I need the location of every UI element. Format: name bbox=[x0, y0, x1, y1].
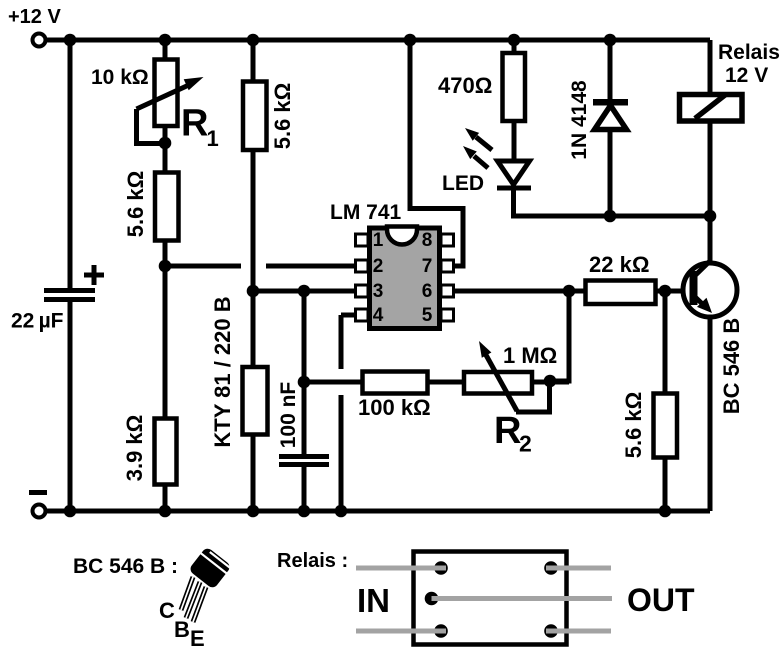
svg-text:5.6 kΩ: 5.6 kΩ bbox=[621, 392, 646, 459]
svg-text:5: 5 bbox=[422, 305, 433, 326]
svg-text:IN: IN bbox=[357, 582, 390, 619]
svg-text:R: R bbox=[181, 103, 208, 145]
svg-text:7: 7 bbox=[422, 256, 433, 277]
svg-text:1: 1 bbox=[207, 126, 219, 151]
svg-text:LED: LED bbox=[442, 172, 484, 195]
svg-text:10 kΩ: 10 kΩ bbox=[91, 66, 149, 89]
svg-text:BC 546 B: BC 546 B bbox=[719, 318, 744, 415]
svg-text:22 µF: 22 µF bbox=[11, 310, 64, 333]
svg-text:1 MΩ: 1 MΩ bbox=[503, 343, 557, 368]
svg-text:6: 6 bbox=[422, 281, 433, 302]
svg-text:Relais :: Relais : bbox=[277, 550, 348, 572]
svg-text:3: 3 bbox=[373, 281, 384, 302]
svg-text:BC 546 B :: BC 546 B : bbox=[73, 555, 178, 578]
svg-text:3.9 kΩ: 3.9 kΩ bbox=[122, 415, 147, 482]
svg-text:5.6 kΩ: 5.6 kΩ bbox=[123, 171, 148, 238]
svg-text:22 kΩ: 22 kΩ bbox=[589, 252, 649, 277]
svg-text:100 kΩ: 100 kΩ bbox=[358, 395, 431, 420]
svg-text:1N 4148: 1N 4148 bbox=[568, 80, 591, 160]
svg-text:Relais: Relais bbox=[718, 41, 780, 64]
svg-text:C: C bbox=[159, 598, 175, 623]
svg-text:100 nF: 100 nF bbox=[277, 382, 300, 449]
svg-text:4: 4 bbox=[373, 305, 384, 326]
svg-text:5.6 kΩ: 5.6 kΩ bbox=[270, 83, 295, 150]
svg-text:470Ω: 470Ω bbox=[438, 73, 492, 98]
svg-text:1: 1 bbox=[373, 230, 384, 251]
svg-text:8: 8 bbox=[422, 230, 433, 251]
svg-text:R: R bbox=[494, 410, 521, 452]
svg-text:KTY 81 / 220 B: KTY 81 / 220 B bbox=[210, 296, 235, 447]
svg-text:12 V: 12 V bbox=[725, 64, 768, 87]
svg-text:OUT: OUT bbox=[627, 582, 695, 618]
svg-text:E: E bbox=[190, 626, 205, 651]
svg-text:+12 V: +12 V bbox=[8, 6, 61, 28]
svg-text:B: B bbox=[174, 617, 190, 642]
svg-text:LM 741: LM 741 bbox=[330, 201, 402, 224]
svg-text:2: 2 bbox=[519, 431, 532, 457]
svg-text:2: 2 bbox=[373, 256, 384, 277]
